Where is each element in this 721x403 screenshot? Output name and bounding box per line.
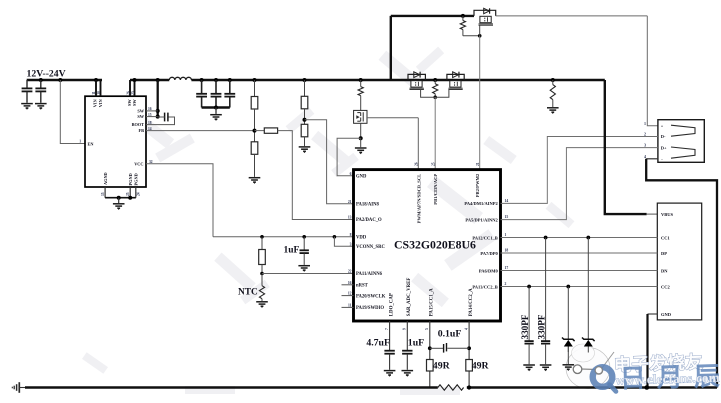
USB receptacle fork top: [671, 125, 695, 136]
wire to IC pin: [417, 118, 419, 170]
decorative watermark blob: [566, 344, 614, 389]
wire SW node drop: [157, 80, 159, 117]
svg-text:D-: D-: [661, 134, 666, 139]
svg-text:15: 15: [101, 192, 105, 196]
capacitor C12 330PF: [525, 341, 534, 344]
wire D+ to PA5: [501, 148, 658, 220]
wire: [303, 253, 305, 265]
wire: [215, 97, 217, 108]
svg-text:12: 12: [348, 292, 352, 296]
svg-text:PGND: PGND: [128, 173, 133, 185]
node input rail junctions: [39, 78, 43, 82]
resistor R2 feedback bottom: [251, 142, 258, 155]
wire VIN pins: [95, 80, 97, 96]
svg-text:11: 11: [348, 304, 352, 308]
wire output cap gnd bus: [202, 106, 230, 108]
svg-text:NTC: NTC: [238, 287, 258, 297]
capacitor C4 output: [196, 94, 207, 97]
wire CC2_A: [468, 321, 470, 388]
svg-text:12V--24V: 12V--24V: [27, 68, 66, 79]
wire Q1 gate: [479, 25, 481, 36]
resistor NTC zigzag: [259, 286, 264, 299]
op-amp U1 CS32G020E8U6 main IC: [354, 170, 501, 321]
svg-text:13: 13: [348, 216, 352, 220]
svg-text:PA11/AINN6: PA11/AINN6: [356, 272, 383, 277]
wire: [40, 80, 42, 88]
wire EN: [60, 80, 85, 144]
wire to PB2 pin: [479, 36, 481, 170]
svg-text:4: 4: [465, 328, 469, 330]
wire D2 bottom: [587, 347, 589, 353]
wire: [304, 137, 306, 146]
wire to PA2/DAC_O: [278, 131, 354, 220]
svg-text:18: 18: [148, 121, 152, 125]
svg-text:16: 16: [348, 281, 352, 285]
svg-text:VIN: VIN: [98, 98, 103, 107]
wire VBUS stub: [647, 213, 658, 215]
wire: [528, 287, 530, 341]
svg-text:2: 2: [505, 282, 507, 286]
ground divider A: [249, 178, 261, 182]
wire CC1_A: [429, 321, 431, 388]
ground C12: [523, 365, 535, 369]
svg-text:SW: SW: [132, 99, 137, 106]
svg-text:SAR_ADC_VREF: SAR_ADC_VREF: [407, 278, 412, 317]
wire: [462, 30, 464, 36]
wire: [434, 94, 436, 98]
wire Q4 gate: [367, 117, 418, 119]
svg-text:PB1/CI3N/ACP: PB1/CI3N/ACP: [433, 174, 438, 205]
svg-text:26: 26: [126, 91, 130, 95]
wire D- to PA4: [501, 137, 658, 204]
connector J2: [657, 203, 701, 320]
op-amp U2 buck regulator IC: [85, 96, 146, 187]
wire J2 GND return: [646, 314, 648, 388]
svg-text:PA13/CC2_B: PA13/CC2_B: [472, 284, 497, 289]
svg-text:1: 1: [644, 121, 646, 126]
svg-text:AGND: AGND: [103, 172, 108, 185]
wire: [261, 237, 263, 250]
svg-text:PA19/SWDIO: PA19/SWDIO: [356, 306, 384, 311]
svg-text:PA5/DP1/AINN2: PA5/DP1/AINN2: [465, 217, 498, 222]
svg-text:18: 18: [505, 248, 509, 252]
svg-text:15: 15: [148, 113, 152, 117]
wire: [261, 265, 263, 274]
wire PGND pin: [129, 187, 131, 198]
wire: [552, 80, 554, 85]
wire VBUS feed: [605, 80, 647, 214]
wire: [552, 100, 554, 107]
capacitor C9 1uF: [402, 351, 412, 354]
wire: [360, 80, 362, 87]
resistor R7 PMOS gate pullup: [460, 21, 465, 30]
svg-text:SW: SW: [137, 109, 144, 114]
wire PGND pin: [135, 187, 137, 198]
diode D2 TVS: [582, 338, 595, 342]
svg-text:21: 21: [348, 200, 352, 204]
inductor L1: [169, 77, 191, 80]
wire to PA18/AIN8: [305, 120, 354, 204]
wire: [229, 97, 231, 108]
resistor R11 49R: [427, 360, 434, 372]
wire PMOS feed horizontal: [391, 15, 474, 17]
svg-text:PA18/AIN8: PA18/AIN8: [356, 202, 379, 207]
wire: [528, 344, 530, 364]
svg-text:PA6/DM0: PA6/DM0: [479, 268, 499, 273]
wire Q1 drain to USB: [496, 15, 648, 17]
svg-text:1uF: 1uF: [284, 246, 300, 256]
wire SWCLK stub: [342, 295, 354, 297]
capacitor C5 output: [211, 94, 222, 97]
svg-text:4.7uF: 4.7uF: [366, 337, 390, 348]
svg-text:CC2: CC2: [661, 284, 670, 289]
svg-text:14: 14: [505, 199, 509, 203]
svg-text:15: 15: [505, 215, 509, 219]
wire CC1: [501, 237, 658, 239]
ground R9: [547, 108, 559, 112]
svg-text:VBUS: VBUS: [661, 212, 674, 217]
svg-text:LDO_CAP: LDO_CAP: [389, 293, 394, 316]
wire BOOT: [146, 117, 175, 125]
svg-text:PA15/CC1_A: PA15/CC1_A: [430, 288, 435, 316]
wire: [254, 154, 256, 177]
wire SW top rail: [130, 79, 169, 82]
wire 12V input rail: [27, 79, 102, 82]
svg-text:PA20/SWCLK: PA20/SWCLK: [356, 294, 386, 299]
svg-text:49R: 49R: [472, 361, 490, 372]
resistor R12 49R: [466, 360, 473, 372]
wire main ground bus: [25, 386, 438, 388]
wire gnd tie: [105, 197, 136, 199]
USB receptacle fork bottom: [671, 147, 695, 158]
svg-text:VDD: VDD: [356, 236, 367, 241]
svg-text:10: 10: [97, 91, 101, 95]
ground divider B: [299, 147, 311, 151]
svg-text:9: 9: [403, 328, 407, 330]
capacitor C11 330PF: [541, 341, 550, 344]
svg-text:BOOT: BOOT: [132, 122, 145, 127]
resistor R1 feedback top: [251, 97, 258, 110]
svg-text:FB: FB: [139, 128, 145, 133]
wire: [261, 274, 263, 286]
resistor R8 zigzag: [433, 84, 438, 94]
capacitor C3 bootstrap: [165, 113, 168, 122]
svg-text:CS32G020E8U6: CS32G020E8U6: [394, 238, 476, 252]
svg-text:nRST: nRST: [356, 284, 369, 289]
svg-text:SW: SW: [127, 99, 132, 106]
svg-text:GND: GND: [661, 312, 672, 317]
svg-text:D+: D+: [661, 145, 667, 150]
svg-text:25: 25: [126, 192, 130, 196]
capacitor C1 input: [22, 88, 33, 91]
wire LDO_CAP: [389, 321, 391, 350]
wire: [360, 96, 362, 111]
svg-text:16: 16: [148, 107, 152, 111]
ground C9: [402, 371, 414, 375]
wire main output rail: [191, 79, 604, 82]
wire: [255, 130, 265, 132]
wire: [229, 80, 231, 94]
wire: [545, 344, 547, 364]
wire: [304, 109, 306, 125]
ground C2: [35, 104, 47, 108]
wire: [158, 116, 165, 118]
diode D1 TVS: [567, 287, 569, 339]
connector J1 USB-A: [658, 120, 704, 163]
svg-text:3: 3: [644, 143, 646, 148]
svg-text:1: 1: [505, 233, 507, 237]
svg-text:VIN: VIN: [93, 98, 98, 107]
wire gnd frame right: [646, 159, 717, 388]
svg-text:24: 24: [137, 192, 141, 196]
wire to PA11/AINN6: [262, 273, 354, 275]
svg-text:22: 22: [348, 270, 352, 274]
wire: [40, 92, 42, 103]
transistor Q3: [447, 72, 464, 90]
wire VCONN_SRC: [334, 237, 353, 247]
wire: [201, 80, 203, 94]
wire DN: [501, 270, 658, 272]
wire: [26, 92, 28, 103]
wire AGND pin: [104, 187, 106, 198]
wire SW pin16: [146, 110, 158, 112]
svg-text:PGND: PGND: [133, 173, 138, 185]
wire: [462, 16, 464, 21]
capacitor C6 output: [224, 94, 235, 97]
svg-text:PWM/AP7N/SDCB_SCL: PWM/AP7N/SDCB_SCL: [416, 174, 421, 224]
capacitor C2 input: [35, 88, 46, 91]
wire VCC: [146, 164, 213, 237]
svg-text:330PF: 330PF: [520, 314, 530, 339]
ground NTC: [256, 302, 268, 306]
resistor R6 gate: [358, 87, 363, 96]
svg-text:CC1: CC1: [661, 235, 670, 240]
svg-text:0.1uF: 0.1uF: [438, 328, 462, 339]
wire: [19, 387, 25, 389]
wire PMOS feed vertical: [390, 16, 392, 80]
transistor Q4 small NMOS: [354, 110, 367, 123]
wire: [254, 80, 256, 97]
wire: [406, 354, 408, 370]
svg-text:8: 8: [350, 233, 352, 237]
ground C11: [540, 365, 552, 369]
wire Q4 source: [360, 123, 362, 138]
svg-text:14: 14: [148, 127, 152, 131]
svg-text:25: 25: [431, 162, 435, 166]
ground Q4: [355, 148, 367, 152]
svg-text:1: 1: [79, 140, 81, 144]
wire: [215, 80, 217, 94]
svg-text:www.elecfans.com: www.elecfans.com: [615, 370, 720, 388]
svg-text:4: 4: [644, 154, 646, 159]
svg-text:1uF: 1uF: [408, 337, 424, 348]
resistor R8 gate: [434, 80, 436, 84]
svg-text:PA12/CC1_B: PA12/CC1_B: [472, 235, 497, 240]
wire: [545, 238, 547, 341]
wire SWDIO stub: [342, 306, 354, 308]
wire: [463, 35, 480, 37]
wire: [118, 198, 120, 203]
svg-text:3: 3: [350, 242, 352, 246]
svg-text:SW: SW: [137, 114, 144, 119]
svg-text:7: 7: [385, 328, 389, 330]
wire: [254, 109, 256, 142]
svg-text:5: 5: [425, 328, 429, 330]
svg-text:PB2/PWM2: PB2/PWM2: [475, 173, 480, 197]
resistor R5 sense bottom: [301, 124, 308, 137]
wire: [360, 138, 362, 147]
wire FB: [146, 130, 255, 132]
ground left terminal: [12, 382, 19, 393]
wire DP: [501, 252, 658, 254]
svg-text:17: 17: [505, 266, 509, 270]
svg-text:PA2/DAC_O: PA2/DAC_O: [356, 218, 382, 223]
svg-text:6: 6: [350, 172, 352, 176]
svg-text:VCONN_SRC: VCONN_SRC: [356, 245, 386, 250]
ground C7: [298, 266, 310, 270]
wire nRST stub: [342, 284, 354, 286]
wire SW pin15: [146, 116, 158, 118]
wire: [26, 80, 28, 88]
svg-text:PA14/CC2_A: PA14/CC2_A: [469, 288, 474, 316]
capacitor 1uF plates: [300, 250, 309, 253]
svg-text:26: 26: [414, 162, 418, 166]
wire J1 pin4 stub: [646, 158, 658, 160]
svg-text:21: 21: [476, 162, 480, 166]
wire: [215, 108, 217, 114]
ground D1: [563, 365, 575, 369]
svg-text:VCC: VCC: [134, 161, 143, 166]
svg-text:PA4/DM1/AINP2: PA4/DM1/AINP2: [464, 201, 498, 206]
resistor R10 NTC pullup: [259, 250, 266, 265]
wire SAR_ADC_VREF: [406, 321, 408, 350]
resistor R4 sense top: [301, 96, 308, 109]
resistor R13 series in bus: [438, 385, 464, 390]
wire D2 top: [587, 238, 589, 339]
wire to GND pin: [337, 138, 361, 176]
wire: [304, 80, 306, 96]
capacitor C8 4.7uF: [384, 351, 394, 354]
ground C8: [384, 371, 396, 375]
svg-text:11: 11: [92, 91, 96, 95]
wire to USB pin1: [647, 16, 658, 126]
wire: [201, 97, 203, 108]
resistor R9 pulldown: [550, 85, 555, 100]
ground U2: [113, 204, 125, 208]
wire: [303, 237, 305, 250]
svg-text:EN: EN: [88, 141, 95, 146]
wire CC2: [501, 286, 658, 288]
svg-text:GND: GND: [356, 175, 367, 180]
svg-text:49R: 49R: [433, 361, 451, 372]
wire D1 bottom: [567, 347, 569, 365]
resistor R3 horizontal: [264, 128, 277, 133]
transistor Q1 PMOS: [474, 8, 496, 25]
svg-text:PA7/DP0: PA7/DP0: [480, 251, 498, 256]
wire: [389, 354, 391, 370]
wire to PB1 pin: [434, 97, 436, 169]
svg-text:2: 2: [644, 132, 646, 137]
wire: [261, 299, 263, 301]
wire J2 GND stub: [648, 313, 658, 315]
ground output caps: [210, 115, 222, 119]
wire Q2-Q3 source tie: [421, 90, 449, 98]
decorative watermark logo: [593, 352, 721, 394]
transistor Q2: [408, 72, 425, 90]
wire VDD node: [213, 236, 354, 238]
svg-text:32: 32: [149, 160, 153, 164]
ground C1: [21, 104, 33, 108]
svg-text:25: 25: [131, 91, 135, 95]
svg-text:DN: DN: [661, 268, 668, 273]
svg-text:330PF: 330PF: [536, 314, 546, 339]
svg-text:DP: DP: [661, 251, 667, 256]
